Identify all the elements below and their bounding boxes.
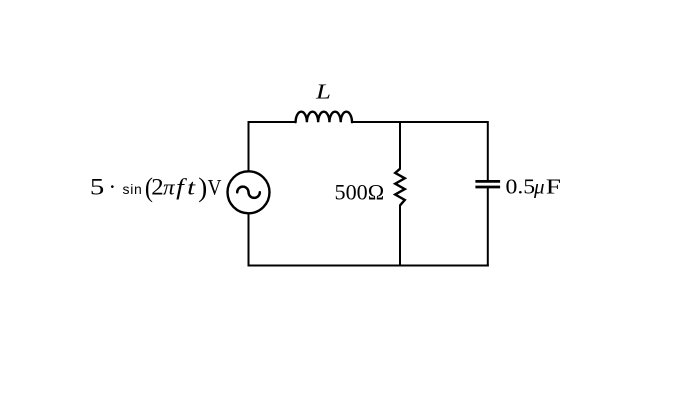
wire: middle branch lower (resistor to bottom)	[399, 205, 401, 267]
wire: right vertical lower (capacitor bottom plate to bottom wire)	[487, 187, 489, 267]
label 0.5μF	[506, 175, 561, 199]
svg-text:·: ·	[109, 175, 117, 200]
wire: left vertical lower (source bottom lead)	[248, 214, 250, 267]
wire: right vertical upper (to capacitor top plate)	[487, 121, 489, 181]
inductor L	[296, 112, 352, 123]
svg-text:sin: sin	[123, 181, 143, 197]
wire: bottom horizontal	[248, 265, 489, 267]
label source value: 5 · sin(2π f t)V	[90, 172, 222, 202]
svg-text:f: f	[176, 175, 187, 200]
svg-text:500Ω: 500Ω	[335, 179, 385, 204]
svg-text:F: F	[546, 175, 561, 198]
svg-text:V: V	[208, 176, 222, 199]
resistor R 500Ω	[395, 169, 405, 206]
wire: middle branch upper (to resistor)	[399, 121, 401, 169]
svg-text:2: 2	[151, 175, 163, 200]
svg-text:): )	[198, 173, 207, 203]
label 500Ω	[335, 179, 385, 204]
svg-text:μ: μ	[533, 175, 545, 199]
capacitor C 0.5μF	[475, 181, 500, 187]
wire: left vertical upper (source top lead)	[248, 121, 250, 171]
voltage source V1 (AC)	[228, 171, 270, 213]
svg-text:0.5: 0.5	[506, 175, 536, 198]
label L	[315, 80, 331, 104]
svg-text:t: t	[187, 175, 196, 200]
wire: top-left segment from source top corner to inductor	[249, 121, 296, 123]
svg-text:L: L	[315, 80, 331, 104]
wire: top-right segment from inductor to right corner	[352, 121, 488, 123]
svg-text:π: π	[163, 175, 175, 199]
svg-text:5: 5	[90, 174, 104, 200]
